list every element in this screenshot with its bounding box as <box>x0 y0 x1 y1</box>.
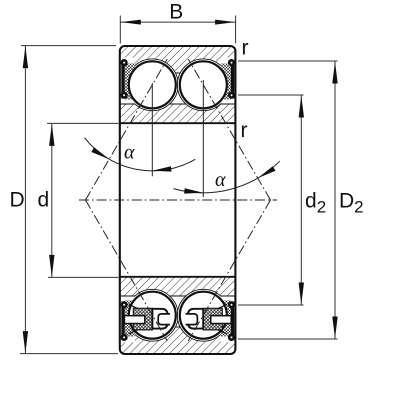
svg-text:α: α <box>124 141 135 163</box>
outer raceway land line lower <box>120 326 236 328</box>
ball lower right <box>180 292 227 339</box>
raceway groove upper right <box>177 59 229 111</box>
dimension B arrow right <box>215 20 235 25</box>
dimension d2 arrow bottom <box>299 283 304 305</box>
arc arrowhead at ball centerline, left <box>152 166 171 171</box>
seal recess (white backing) upper right <box>221 58 236 104</box>
svg-text:α: α <box>215 169 226 191</box>
inner raceway land line lower <box>120 295 236 297</box>
seal sheet lower left <box>121 301 124 339</box>
ball upper right <box>180 61 227 108</box>
cage flange slant bottom lower left <box>129 330 138 334</box>
dimension B extension line right <box>235 16 237 44</box>
contact angle arc right <box>174 161 280 193</box>
dimension d line <box>51 123 53 277</box>
svg-text:d: d <box>38 189 50 212</box>
inner raceway land line upper <box>120 103 236 105</box>
seal recess (white backing) lower right <box>221 297 236 343</box>
bore line upper <box>120 122 236 124</box>
raceway groove lower left <box>126 289 178 341</box>
ball centerline upper right <box>202 80 204 197</box>
cage flange slant bottom lower right <box>218 330 227 334</box>
seal inner lip bead lower right <box>228 301 235 308</box>
dimension d2 extension line top <box>238 94 304 96</box>
seal inner lip bead upper left <box>121 92 128 99</box>
cage flange slant top lower right <box>218 304 227 308</box>
outer raceway land line upper <box>120 72 236 74</box>
dimension D extension line top <box>21 45 116 47</box>
dimension d2 extension line bottom <box>238 304 304 306</box>
bearing axis centerline <box>79 199 277 201</box>
bore line lower <box>120 276 236 278</box>
svg-text:r: r <box>242 37 249 60</box>
dimension D extension line bottom <box>20 353 118 355</box>
cage prong notch lower right <box>186 314 198 325</box>
seal outer lip bead lower right <box>228 334 235 341</box>
seal sheet lower right <box>231 301 234 339</box>
contact line upper left <box>86 59 168 200</box>
inner ring upper (hatched) <box>120 104 236 123</box>
cage bridge block (crosshatched) lower right <box>203 308 222 330</box>
dimension D2 extension line bottom <box>238 338 338 340</box>
dimension d2 line <box>300 95 302 305</box>
dimension d extension line top <box>47 122 119 124</box>
dimension D2 arrow bottom <box>332 317 337 339</box>
dimension B line <box>120 21 235 23</box>
seal rubber (crosshatched) upper right <box>221 64 231 100</box>
svg-text:r: r <box>241 119 248 142</box>
dimension B arrow left <box>121 20 141 25</box>
cage prong C-profile lower right <box>188 309 203 329</box>
inner ring lower (hatched) <box>120 277 236 296</box>
contact line lower left <box>86 200 168 341</box>
ball centerline upper left <box>151 83 153 176</box>
dimension d extension line bottom <box>48 276 119 278</box>
dimension D2 extension line top <box>238 60 338 62</box>
cage snap slot lower right <box>211 316 231 324</box>
cage prong C-profile lower left <box>152 309 167 329</box>
dimension D arrow bottom <box>23 331 28 353</box>
seal sheet upper right <box>231 61 234 99</box>
bearing outline <box>120 46 236 354</box>
dimension D line <box>24 46 26 354</box>
arc arrowhead at contact line, left <box>91 147 109 159</box>
seal recess (white backing) upper left <box>120 58 135 104</box>
seal sheet upper left <box>121 61 124 99</box>
seal rubber (crosshatched) upper left <box>125 64 135 100</box>
ball upper left <box>129 61 176 108</box>
dimension d arrow bottom <box>49 255 54 277</box>
seal rubber (crosshatched) lower left <box>125 301 135 337</box>
inner ring seal shoulder upper left <box>120 99 129 105</box>
arc arrowhead at contact line, right <box>258 166 276 178</box>
cage flange slant top lower left <box>129 304 138 308</box>
outer ring upper (hatched) <box>120 46 236 73</box>
arc arrowhead at ball centerline, right <box>184 188 203 193</box>
inner ring seal shoulder lower left <box>120 296 129 302</box>
raceway groove lower right <box>177 289 229 341</box>
cage snap slot lower left <box>124 316 144 324</box>
dimension B extension line left <box>119 16 121 44</box>
inner ring seal shoulder upper right <box>226 99 235 105</box>
inner ring seal shoulder lower right <box>226 296 235 302</box>
seal outer lip bead upper left <box>121 59 128 66</box>
contact angle arc left <box>85 138 196 171</box>
outer ring lower (hatched) <box>120 327 236 354</box>
cage prong notch lower left <box>158 314 170 325</box>
seal outer lip bead upper right <box>228 59 235 66</box>
seal recess (white backing) lower left <box>120 297 135 343</box>
seal outer lip bead lower left <box>121 334 128 341</box>
dimension D arrow top <box>23 46 28 68</box>
svg-text:D: D <box>10 189 25 212</box>
contact line lower right <box>188 200 270 341</box>
seal rubber (crosshatched) lower right <box>221 301 231 337</box>
dimension d arrow top <box>49 124 54 146</box>
dimension D2 arrow top <box>332 62 337 84</box>
raceway groove upper left <box>126 59 178 111</box>
svg-text:B: B <box>169 1 183 24</box>
dimension d2 arrow top <box>299 96 304 118</box>
cage bridge block (crosshatched) lower left <box>133 308 152 330</box>
dimension D2 line <box>334 61 336 339</box>
seal inner lip bead upper right <box>228 92 235 99</box>
ball lower left <box>129 292 176 339</box>
contact line upper right <box>188 59 270 200</box>
seal inner lip bead lower left <box>121 301 128 308</box>
